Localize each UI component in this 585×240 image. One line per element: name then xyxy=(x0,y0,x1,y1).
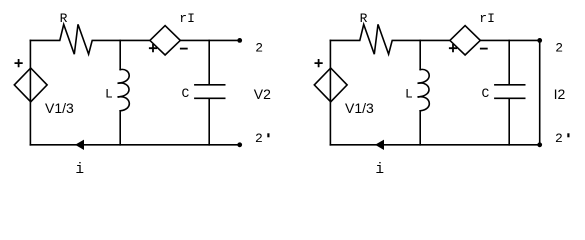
svg-text:V2: V2 xyxy=(254,86,271,102)
svg-text:I2: I2 xyxy=(554,86,566,102)
